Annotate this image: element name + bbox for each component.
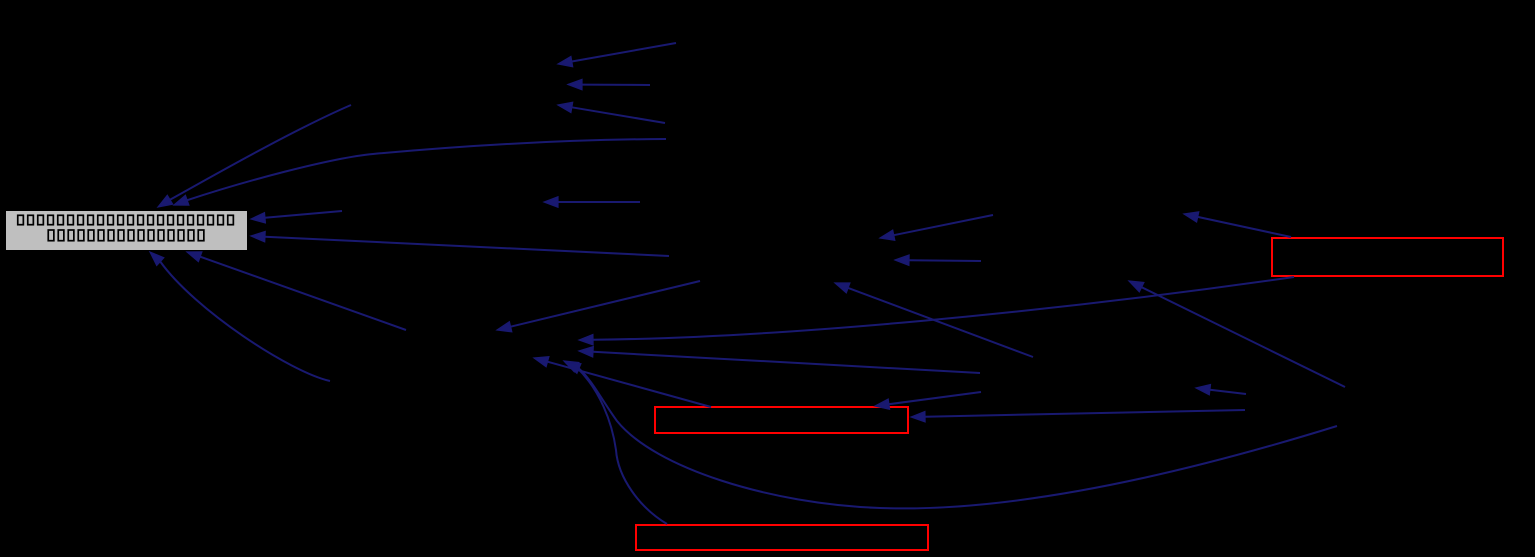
edge E6 [251,211,342,223]
edge E2 [568,79,650,89]
edge E19 [835,283,1033,357]
edge E22 [1196,385,1246,395]
edge E17 [895,255,981,265]
edge E8 (curved) [150,252,330,381]
edge E20 [1129,281,1345,387]
edge E5 (curved) [158,105,351,207]
edge E11 [534,357,711,407]
edge E3 [558,102,665,123]
edge E1 [558,43,676,67]
node: red box 1 (top right) [1272,238,1503,276]
edge E21 (curved) [566,363,1337,508]
node: red box 2 (middle) [655,407,908,433]
edge E9 [187,252,406,330]
edge E16 [880,215,993,240]
node: red box 3 (bottom) [636,525,928,550]
edge E23 [911,410,1245,422]
edge E10 [497,281,700,332]
node: current function (gray box with missing-glyph text) [6,211,247,250]
edge E15 [544,197,640,207]
edge E7 [251,232,669,257]
edge E14 [579,347,980,373]
edge E12 (curved) [564,361,667,524]
edge E24 [875,392,981,409]
edge E4 (curved) [174,139,666,205]
edge E18 [1184,212,1291,237]
edge E13 (curved) [579,277,1294,345]
